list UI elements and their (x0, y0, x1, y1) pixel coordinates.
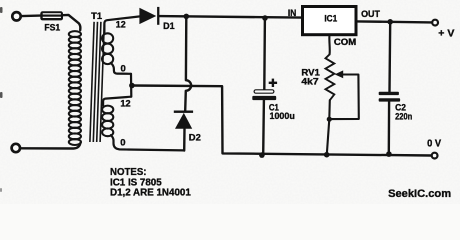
svg-text:4k7: 4k7 (301, 77, 318, 87)
svg-text:0: 0 (120, 137, 125, 147)
svg-text:0: 0 (121, 63, 126, 73)
svg-text:SeekIC.com: SeekIC.com (388, 188, 451, 200)
svg-text:FS1: FS1 (44, 23, 60, 33)
svg-text:COM: COM (334, 37, 356, 47)
svg-text:0 V: 0 V (427, 139, 442, 150)
svg-text:D1: D1 (163, 21, 175, 31)
svg-text:IC1: IC1 (324, 14, 337, 24)
svg-text:IN: IN (288, 8, 296, 18)
svg-text:12: 12 (120, 98, 130, 108)
svg-text:D2: D2 (189, 133, 201, 143)
svg-text:220n: 220n (395, 112, 412, 122)
svg-text:12: 12 (116, 19, 126, 29)
svg-text:T1: T1 (91, 11, 102, 21)
svg-text:1000u: 1000u (270, 111, 295, 121)
svg-text:OUT: OUT (361, 9, 381, 19)
svg-text:D1,2 ARE 1N4001: D1,2 ARE 1N4001 (110, 188, 191, 199)
svg-text:+ V: + V (438, 29, 455, 40)
